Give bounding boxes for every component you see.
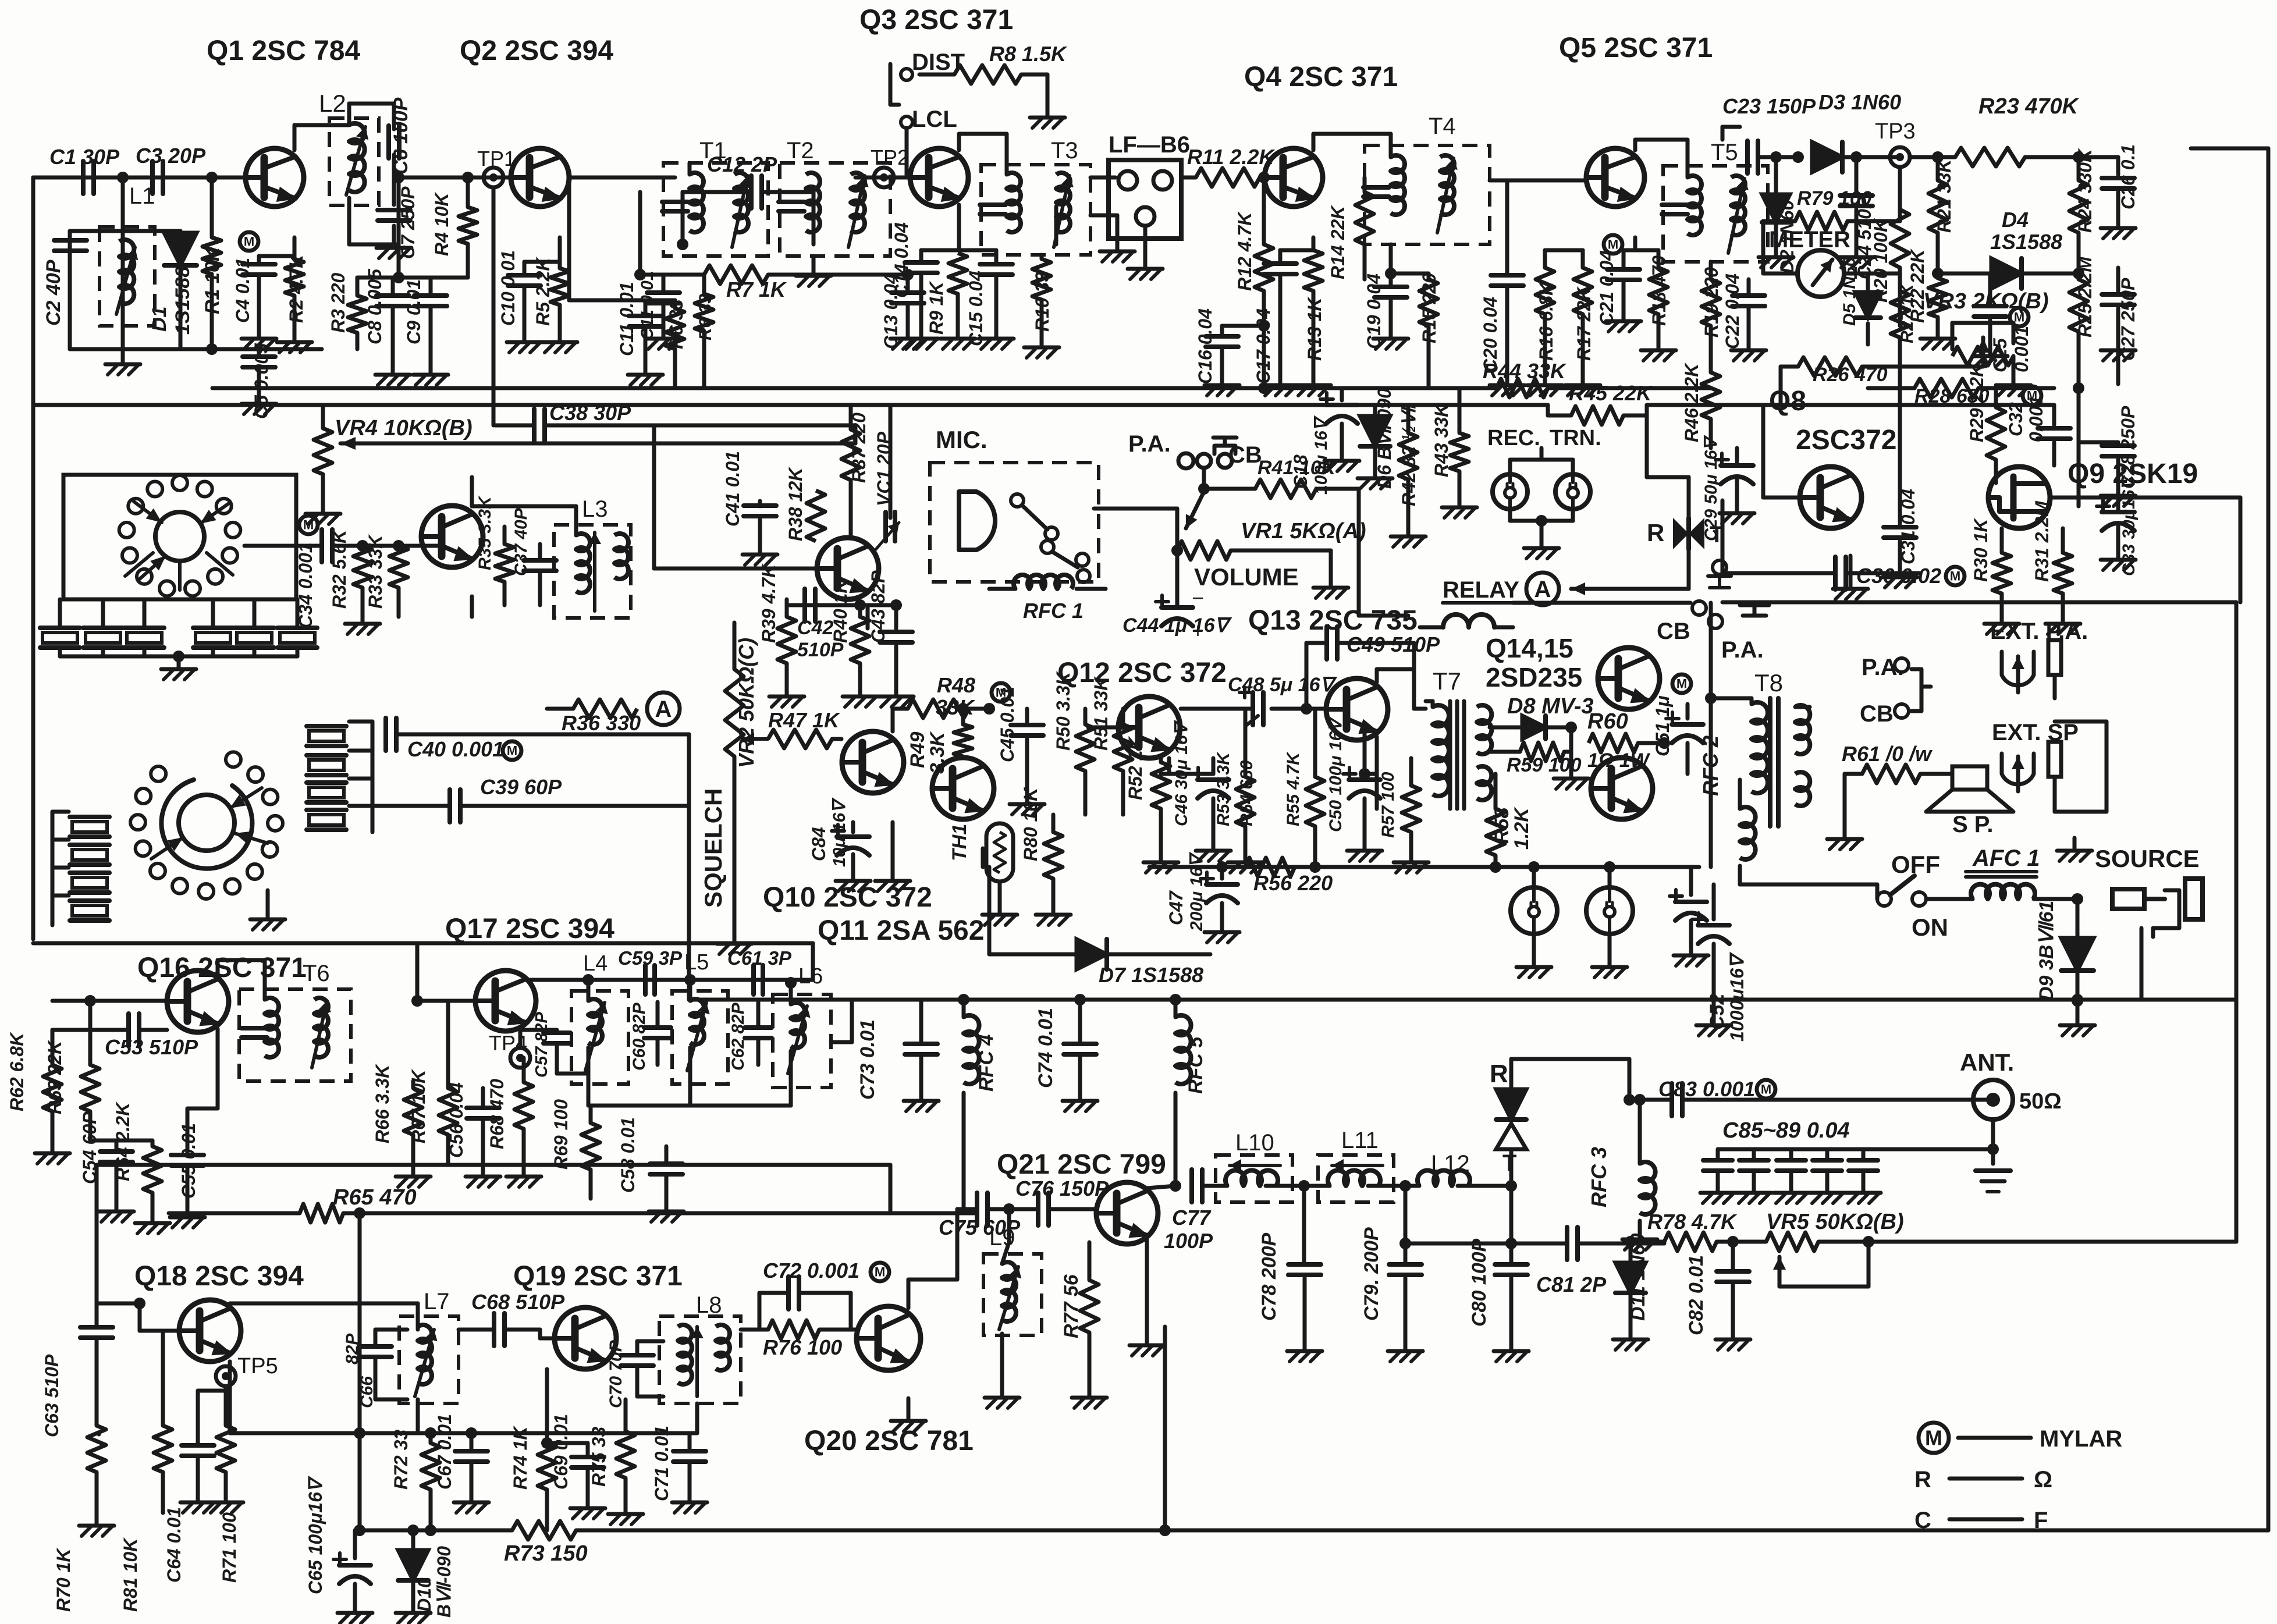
svg-text:C8 0.005: C8 0.005 [364, 268, 385, 344]
svg-text:R17 22K: R17 22K [1573, 286, 1594, 361]
wire Q21 collector [1147, 1180, 1181, 1192]
switch contact 3 [262, 790, 278, 805]
svg-text:C41 0.01: C41 0.01 [722, 451, 743, 527]
wire Q11 emitter down [981, 848, 985, 867]
transistor Q4 2SC371 [1264, 148, 1323, 207]
wire R65 to Q21 base [343, 1207, 975, 1536]
svg-text:R14 22K: R14 22K [1327, 204, 1348, 279]
resistor R78 4.7K [1625, 1210, 1739, 1251]
wire osc box left bottom [97, 1433, 101, 1437]
wire Q18 base [97, 1298, 179, 1331]
switch CB contact [1860, 669, 1931, 727]
svg-text:R7 1K: R7 1K [726, 278, 787, 301]
ground Q10 emitter [875, 822, 910, 891]
diode D5 1N60 [1840, 257, 1881, 344]
svg-text:P.A.: P.A. [1721, 637, 1764, 663]
svg-text:R75 33: R75 33 [588, 1427, 609, 1487]
rotary channel switch S1a [63, 475, 296, 599]
capacitor C41 0.01 [722, 451, 777, 565]
legend C F [1914, 1508, 2048, 1533]
svg-text:C85~89 0.04: C85~89 0.04 [1722, 1118, 1850, 1143]
capacitor C56 0.04 [446, 1082, 500, 1187]
inductor RFC2 [1699, 735, 1756, 884]
capacitor C76 150P [1015, 1177, 1109, 1225]
wire vertical to bus [1159, 1327, 1171, 1536]
svg-text:R31 2.2M: R31 2.2M [2031, 500, 2052, 582]
resistor R3 220 [328, 273, 367, 349]
svg-text:R29 2.2K: R29 2.2K [1966, 362, 1987, 442]
wire Q8 base [1763, 405, 1800, 497]
switch CB top [1197, 438, 1262, 468]
svg-text:R37 220: R37 220 [848, 413, 869, 483]
transistor Q19 label [513, 1261, 683, 1292]
svg-text:R16 6.8K: R16 6.8K [1536, 280, 1557, 361]
capacitor C9 0.01 [403, 278, 448, 385]
svg-text:C63 510P: C63 510P [41, 1354, 62, 1437]
svg-text:TRN.: TRN. [1550, 426, 1601, 450]
inductor L11 [1304, 1128, 1411, 1202]
resistor R24 330K [2069, 147, 2095, 273]
resistor R13 1K [1296, 250, 1331, 396]
resistor R30 1K [1970, 517, 2019, 634]
svg-text:R78 4.7K: R78 4.7K [1647, 1210, 1738, 1234]
node rail-R4 [462, 172, 474, 183]
capacitor C34 0.001(M) [244, 516, 361, 628]
inductor L12 [1405, 1151, 1517, 1192]
resistor R60 1ohm1W [1587, 709, 1670, 772]
switch contact 6 [247, 864, 262, 879]
switch contact 2 [248, 767, 263, 782]
svg-text:C34 0.001: C34 0.001 [295, 542, 316, 628]
svg-text:P.A.: P.A. [1128, 431, 1171, 457]
svg-text:T3: T3 [1051, 138, 1078, 164]
transistor Q10 label [763, 882, 932, 913]
svg-text:C74 0.01: C74 0.01 [1035, 1008, 1057, 1088]
svg-text:R73 150: R73 150 [504, 1541, 588, 1566]
circled A mid [547, 692, 680, 735]
resistor R8 1.5K [919, 42, 1068, 128]
wire Q2 base net [569, 177, 675, 300]
transistor Q21 2SC799 [1096, 1182, 1158, 1244]
transistor Q5 label [1559, 33, 1713, 63]
svg-text:C15 0.04: C15 0.04 [965, 271, 986, 346]
svg-text:C71 0.01: C71 0.01 [651, 1426, 672, 1501]
switch P.A. contact [1862, 655, 1909, 680]
capacitor C83 0.001(M) [1624, 1059, 1990, 1116]
capacitor C31 0.04 [1882, 361, 1919, 588]
capacitor C3 [136, 144, 206, 194]
crystal X2 [83, 611, 123, 648]
transistor Q18 2SC394 [179, 1300, 241, 1362]
svg-text:R32 5.6K: R32 5.6K [329, 528, 350, 609]
resistor R25 2.2M [2069, 256, 2095, 361]
svg-text:VR3 2KΩ(B): VR3 2KΩ(B) [1923, 289, 2048, 314]
transistor Q9 2SK19 label [2068, 459, 2198, 489]
svg-text:C14 0.04: C14 0.04 [891, 222, 912, 298]
diode D6 BZ-090 [1358, 388, 1395, 489]
svg-text:L4: L4 [583, 951, 608, 976]
svg-text:M: M [1608, 237, 1618, 252]
resistor R67 10K [408, 1001, 457, 1164]
capacitor C89 [1846, 1149, 1881, 1203]
svg-text:C78 200P: C78 200P [1258, 1232, 1280, 1321]
stage1 bias net [357, 244, 468, 283]
resistor R2 4.7K [277, 253, 312, 353]
resistor R5 2.2K [532, 256, 577, 353]
meter M [1763, 227, 1900, 297]
svg-text:R15 220: R15 220 [1419, 273, 1440, 343]
svg-text:R9 1K: R9 1K [926, 280, 947, 335]
svg-text:R: R [1647, 519, 1664, 546]
resistor R51 33K [1090, 676, 1132, 815]
microphone element [959, 492, 995, 550]
resistor R31 2.2M [2031, 500, 2080, 634]
svg-text:C79. 200P: C79. 200P [1360, 1227, 1383, 1321]
resistor R63 33 [695, 275, 715, 388]
resistor R35 3.3K [475, 495, 514, 605]
svg-text:C72 0.001: C72 0.001 [763, 1259, 859, 1282]
crystal X12 [307, 755, 346, 775]
volume label [1194, 563, 1299, 591]
capacitor C85 [1700, 1149, 1735, 1203]
wire Q2 emitter down [558, 237, 562, 268]
jack EXT.SP [1992, 720, 2079, 791]
resistor R70 1K [53, 1408, 114, 1612]
inductor L7 [399, 1289, 459, 1403]
resistor R20 100K [1870, 167, 1909, 326]
lamp PL1 [1511, 861, 1557, 978]
transistor Q4 label [1244, 62, 1398, 93]
resistor R63 22K [44, 1001, 100, 1140]
svg-text:+: + [1192, 619, 1204, 642]
potentiometer VR4 10K(B) [306, 405, 473, 524]
svg-text:R57 100: R57 100 [1379, 772, 1398, 838]
resistor R15 220 [1391, 273, 1440, 388]
antenna ANT [1960, 1049, 2062, 1140]
capacitor C46 30u16V [1172, 719, 1231, 861]
filter LF-B6 [1109, 132, 1190, 279]
transistor Q15 2SD235 [1591, 758, 1653, 819]
wire Q21 emitter [1129, 1238, 1164, 1356]
transistor Q17 label [445, 914, 614, 944]
inductor L3 [554, 496, 631, 618]
svg-text:1S1588: 1S1588 [172, 266, 194, 335]
wire bus B left drop [31, 177, 35, 405]
svg-text:CB: CB [1657, 619, 1690, 644]
capacitor C70 70P [606, 1339, 663, 1408]
svg-text:C4 0.01: C4 0.01 [232, 258, 253, 323]
switch contact 8 [198, 884, 214, 899]
svg-text:M: M [1925, 1426, 1942, 1450]
resistor R37 220 [841, 405, 869, 538]
svg-text:D1: D1 [148, 307, 170, 332]
wire C48 to Q13 [1271, 707, 1326, 711]
switch OFF/ON [1877, 851, 1948, 941]
svg-text:D5 1N60: D5 1N60 [1840, 257, 1859, 326]
resistor R21 33K [1928, 151, 1955, 279]
svg-text:50Ω: 50Ω [2019, 1089, 2062, 1114]
capacitor C45 0.01(M) [997, 687, 1045, 815]
inductor L5 label [684, 950, 709, 975]
capacitor C12 2P [683, 152, 814, 244]
switch CB mid [1657, 601, 1706, 644]
capacitor C7 250P [376, 155, 418, 259]
capacitor C8 0.005 [364, 268, 410, 385]
wire xtal2 bus [52, 812, 69, 925]
transistor Q7 2SC371 [817, 538, 879, 599]
ground crystal bus [161, 656, 196, 680]
transistor Q8 2SC372 [1800, 467, 1862, 528]
svg-text:M: M [2027, 389, 2037, 403]
svg-text:C19 0.04: C19 0.04 [1363, 273, 1384, 349]
wire L1 stem [121, 177, 125, 349]
inductor L6 label [798, 964, 823, 989]
resistor R56 220 [1245, 858, 1333, 895]
capacitor C50 100u16V [1326, 716, 1382, 861]
crystal X1 [40, 611, 80, 648]
svg-text:R40 1K: R40 1K [830, 578, 851, 643]
wire Q7 base drop [654, 425, 817, 568]
wire y2137 row [1405, 1227, 1664, 1296]
capacitor C10 0.01 [498, 250, 560, 353]
capacitor C73 0.01 [857, 1000, 939, 1111]
ground ANT [1976, 1149, 2010, 1192]
wire Q19 base [540, 1330, 555, 1338]
svg-text:R2 4.7K: R2 4.7K [286, 253, 307, 323]
svg-text:R61 /0 /w: R61 /0 /w [1842, 742, 1933, 766]
svg-text:C64 0.01: C64 0.01 [164, 1507, 184, 1583]
svg-text:Q19 2SC 371: Q19 2SC 371 [513, 1261, 683, 1292]
diode D11 1N60 [1613, 1233, 1649, 1350]
svg-text:C67 0.01: C67 0.01 [434, 1414, 455, 1490]
resistor R22 22K [1907, 248, 1955, 349]
junction rail-L2out [349, 172, 404, 244]
svg-text:T5: T5 [1711, 140, 1738, 165]
capacitor C19 0.04 [1363, 244, 1408, 349]
resistor R66 3.3K [372, 1063, 431, 1187]
svg-text:Q13 2SC 735: Q13 2SC 735 [1248, 605, 1418, 636]
svg-text:R30 1K: R30 1K [1970, 517, 1991, 582]
wire T8 primary top [1705, 603, 1752, 867]
wire main top rail [33, 176, 910, 180]
svg-text:C37 40P: C37 40P [511, 507, 531, 576]
test point TP3 [1875, 119, 1916, 167]
resistor R39 4.7K [758, 563, 804, 707]
crystal X7 [70, 817, 109, 837]
svg-text:C56 0.04: C56 0.04 [446, 1082, 467, 1158]
svg-text:Q5 2SC 371: Q5 2SC 371 [1559, 33, 1713, 63]
transistor Q19 2SC371 [555, 1307, 616, 1369]
svg-text:L9: L9 [989, 1225, 1015, 1250]
inductor L5 tank [672, 980, 728, 1106]
svg-text:VOLUME: VOLUME [1194, 563, 1299, 591]
wire VR1 left up [1094, 509, 1177, 550]
svg-text:R36 330: R36 330 [562, 711, 641, 735]
wire Q12 emitter net [1161, 758, 1213, 774]
jack DIST/LCL [890, 49, 965, 132]
svg-text:R60: R60 [1587, 709, 1628, 734]
wire C75 C76 link [1009, 1207, 1036, 1211]
wire audio supply y1490 [1149, 865, 1699, 869]
svg-text:C38 30P: C38 30P [549, 401, 631, 425]
switch contact 9 [172, 879, 187, 894]
svg-text:C65 100μ16∇: C65 100μ16∇ [305, 1475, 326, 1594]
legend MYLAR [1919, 1423, 2122, 1453]
capacitor C88 [1810, 1149, 1845, 1203]
capacitor C69 0.01 [541, 1414, 605, 1519]
capacitor C26 0.1 [2101, 144, 2139, 239]
capacitor C28 250P [2079, 337, 2139, 506]
svg-text:D4: D4 [2002, 208, 2029, 232]
svg-text:C21 0.04: C21 0.04 [1596, 250, 1617, 326]
wire relay row [1513, 601, 1690, 605]
svg-text:M: M [1676, 677, 1687, 691]
svg-text:R45 22K: R45 22K [1569, 381, 1653, 405]
wire L6 to C73 [831, 1000, 852, 1042]
svg-text:C10 0.01: C10 0.01 [498, 250, 518, 326]
resistor R16 6.8K [1528, 250, 1562, 396]
resistor R41 10K [1198, 457, 1359, 550]
svg-text:2SD235: 2SD235 [1486, 662, 1582, 692]
wire source node [2072, 893, 2083, 937]
switch contact 14 [151, 766, 166, 781]
svg-text:METER: METER [1769, 227, 1850, 253]
wire Q9 to border [2050, 497, 2240, 602]
resistor R11 2.2K [1181, 145, 1276, 187]
resistor R50 3.3K [1053, 670, 1095, 815]
transistor Q13 2SC735 [1248, 605, 1418, 740]
svg-text:C9 0.01: C9 0.01 [403, 279, 424, 344]
svg-text:TP2: TP2 [871, 145, 909, 169]
capacitor C61 3P [727, 947, 797, 994]
lamp PL2 [1586, 861, 1633, 978]
transistor Q14 2SD235 [1486, 633, 1660, 709]
svg-text:R12 4.7K: R12 4.7K [1234, 211, 1255, 291]
wire Q5 collector to T5 [1635, 140, 1688, 177]
capacitor C6 100P [389, 97, 412, 175]
resistor R68 470 [486, 1058, 541, 1187]
resistor R38 12K [785, 466, 825, 541]
resistor R18 470 [1641, 250, 1676, 361]
wire L1 bottom net [70, 347, 322, 351]
test point TP4 [489, 1030, 530, 1068]
switch contact 1 [226, 752, 241, 767]
svg-text:C18: C18 [1290, 454, 1311, 489]
svg-text:C17 0.04: C17 0.04 [1253, 308, 1274, 384]
jack EXT.P.A. [1990, 619, 2088, 692]
resistor R52 1K [1125, 735, 1178, 873]
svg-text:C33 30μ16∇: C33 30μ16∇ [2119, 474, 2139, 576]
wire VR4 wiper arrow [340, 425, 855, 450]
svg-text:Q17 2SC 394: Q17 2SC 394 [445, 914, 614, 944]
svg-text:D9 3BⅦ61: D9 3BⅦ61 [2036, 901, 2058, 1001]
wire supply bus A [212, 386, 1711, 390]
svg-text:R55 4.7K: R55 4.7K [1284, 751, 1303, 826]
crystal X13 [307, 783, 346, 802]
capacitor C75 60P [939, 1193, 1021, 1239]
capacitor C11 0.01 [616, 282, 663, 386]
inductor RFC1 [989, 575, 1106, 623]
wire Q17 base [411, 943, 475, 1007]
capacitor C51 1u(M) [1652, 674, 1703, 774]
svg-text:M: M [1950, 569, 1960, 584]
svg-text:200μ 16∇: 200μ 16∇ [1187, 851, 1206, 932]
svg-text:C1 30P: C1 30P [49, 145, 120, 169]
rotary channel switch S1b [161, 780, 252, 869]
diode pair R/T [1490, 1059, 1629, 1186]
capacitor C24 510P [1839, 151, 1875, 279]
transformer T1 [662, 138, 768, 256]
inductor AFC1 [1926, 845, 2077, 899]
svg-text:C: C [1914, 1508, 1931, 1533]
svg-text:VR4 10KΩ(B): VR4 10KΩ(B) [335, 416, 473, 440]
wire lamps bottom [1510, 509, 1573, 559]
svg-text:TP3: TP3 [1875, 119, 1916, 144]
svg-text:C53 510P: C53 510P [105, 1035, 198, 1059]
transistor Q12 label [1057, 658, 1227, 688]
svg-text:SQUELCH: SQUELCH [699, 788, 727, 908]
svg-text:T1: T1 [699, 138, 727, 164]
svg-text:1S1588: 1S1588 [1990, 230, 2062, 254]
ground Q20 emitter [891, 1398, 926, 1431]
wire Q10 collector up [891, 709, 895, 731]
capacitor C17 0.04 [1253, 237, 1313, 396]
svg-text:ANT.: ANT. [1960, 1049, 2014, 1076]
transformer T2 [779, 138, 890, 256]
svg-text:T: T [1710, 522, 1724, 548]
inductor L9 [983, 1209, 1042, 1408]
svg-text:C61 3P: C61 3P [727, 947, 792, 969]
transistor Q17 2SC394 [475, 971, 536, 1031]
capacitor C16 0.04 [1195, 308, 1270, 396]
svg-text:C11 0.01: C11 0.01 [616, 282, 637, 357]
svg-text:R46 2.2K: R46 2.2K [1681, 362, 1702, 442]
capacitor C79 200P [1360, 1186, 1423, 1362]
svg-text:C81 2P: C81 2P [1536, 1273, 1607, 1296]
diode D1 1S1588 [148, 233, 197, 335]
svg-text:Q4 2SC 371: Q4 2SC 371 [1244, 62, 1398, 93]
diode D3 1N60 [1812, 90, 1901, 172]
legend R ohm [1914, 1467, 2052, 1492]
svg-text:L6: L6 [798, 964, 823, 989]
ground volume [1313, 550, 1348, 598]
resistor R26 470 [1781, 357, 1983, 405]
resistor R1 10K [201, 177, 223, 355]
capacitor C82 0.01 [1685, 1242, 1750, 1350]
svg-text:R80 10K: R80 10K [1020, 786, 1041, 861]
resistor R57 100 [1379, 758, 1429, 873]
potentiometer VR1 5K(A) [1171, 492, 1366, 560]
svg-text:ON: ON [1912, 914, 1948, 941]
svg-text:R11 2.2K: R11 2.2K [1187, 145, 1276, 169]
capacitor C78 200P [1258, 1186, 1322, 1362]
capacitor C59 3P [582, 947, 696, 994]
inductor L4 label [583, 951, 608, 976]
svg-text:R49: R49 [907, 732, 929, 768]
transistor Q12 2SC372 [1088, 696, 1180, 758]
svg-text:Q14,15: Q14,15 [1486, 633, 1573, 663]
wire to OFF switch [1740, 884, 1877, 899]
resistor R32 5.6K [329, 528, 380, 634]
svg-text:R10 33: R10 33 [1032, 272, 1053, 332]
relay RELAY [1420, 577, 1519, 627]
svg-text:R67 10K: R67 10K [408, 1068, 429, 1143]
capacitor C48 5u16V [1181, 674, 1337, 726]
test point TP1 [477, 147, 516, 425]
svg-text:T7: T7 [1433, 667, 1461, 695]
svg-text:R79 100: R79 100 [1797, 187, 1872, 209]
resistor R62 6.8K [6, 1030, 70, 1164]
